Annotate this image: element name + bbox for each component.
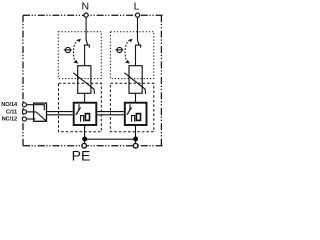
device enclosure dash-dot border right [160,15,162,146]
terminal N [84,13,88,17]
terminal NO/14 [22,103,26,107]
wire C/11 terminal [26,111,33,113]
wire NO/14 terminal [26,104,33,106]
svg-text:N: N [82,0,90,12]
thermal dashed arc 2 [125,40,129,59]
module 1 lower dashed box [59,83,102,131]
device enclosure dash-dot border bottom [23,145,163,147]
wire varistor 1 to spark gap box 1 [84,93,86,102]
svg-text:NO/14: NO/14 [1,102,18,108]
arc arrowhead up 1 [77,39,81,43]
wire N terminal down to disconnector 1 [85,17,87,40]
device enclosure dash-dot border top [23,14,163,16]
wire spark gap box 1 to PE node [84,125,86,144]
wire L terminal down to disconnector 2 [137,17,139,40]
terminal C/11 [22,110,26,114]
remote signalling contact box [34,103,47,121]
junction node 1 [82,137,87,142]
svg-text:NC/12: NC/12 [2,117,18,123]
terminal L [136,13,140,17]
disconnector 2 blade [138,40,140,45]
module 2 lower dashed box [110,83,153,131]
spark gap symbol 2 [127,104,132,115]
disconnector 1 contact bar [84,45,90,48]
mechanical linkage double line right [97,112,124,115]
svg-text:C/11: C/11 [6,109,17,115]
varistor 2 diagonal [124,73,145,94]
spark gap module box 2 [125,103,147,125]
contact NO path [34,105,45,111]
module 1 upper dotted box [58,32,101,79]
wire disconnector 1 to varistor 1 [84,45,86,66]
module 2 upper dotted box [110,32,153,79]
arc arrowhead down 1 [74,60,79,64]
disconnector 2 contact bar [135,45,141,48]
varistor 1 diagonal [73,73,94,94]
thermal dashed arc 1 [73,40,77,59]
thermal symbol theta 1 [65,47,70,52]
device enclosure dash-dot border left [22,15,24,146]
wire varistor 2 to spark gap box 2 [135,93,137,102]
wire spark gap box 2 to PE bus [135,125,137,144]
thermal symbol theta 2 [117,47,122,52]
svg-text:PE: PE [72,148,91,161]
terminal NC/12 [22,117,26,121]
terminal PE branch 2 [133,143,138,148]
PE bus wire joining branches [85,138,136,140]
junction node 2 [133,137,138,142]
terminal PE [82,143,87,148]
wire disconnector 2 to varistor 2 [135,45,137,66]
contact NC stub [34,118,36,120]
contact blade [34,112,46,121]
svg-text:L: L [134,0,140,12]
wire NC/12 terminal [26,118,33,120]
varistor 1 body [78,66,91,94]
spark gap symbol 1 [76,104,81,115]
arc arrowhead down 2 [125,60,130,64]
spark gap module box 1 [74,103,97,125]
mechanical linkage double line left [47,112,73,115]
varistor 2 body [129,66,142,94]
disconnector 1 blade [86,40,88,45]
arc arrowhead up 2 [129,39,133,43]
